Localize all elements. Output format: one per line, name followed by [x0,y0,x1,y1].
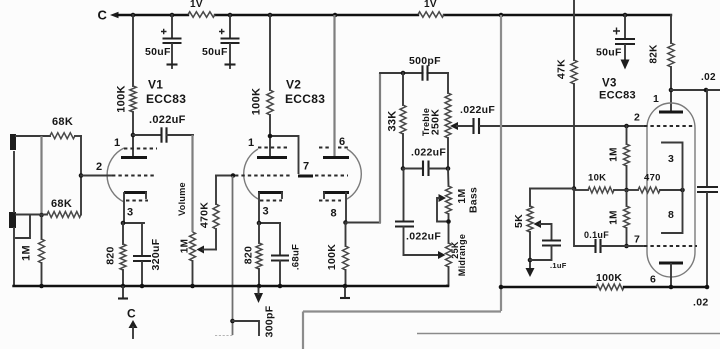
pin 8 label V2 [331,208,337,220]
resistor 100K follower label [326,244,338,270]
wire long bottom jog [303,312,501,349]
pin 1 label V1 [114,137,120,149]
capacitor .68uF label [291,244,302,270]
tube V3 plate bar top [659,111,683,114]
svg-text:5K: 5K [513,214,525,228]
resistor 470K label [199,202,211,228]
svg-text:1V: 1V [190,0,203,10]
potentiometer 1M bass label [456,188,468,203]
svg-text:.68uF: .68uF [291,244,302,270]
potentiometer 25K mid label [450,241,460,259]
svg-text:3: 3 [668,153,674,165]
capacitor .1uF presence label [550,261,567,270]
pin 2 label V3 [634,112,640,124]
capacitor 50uF #3 label [596,47,622,59]
wire ground bus right b [624,286,707,288]
svg-text:.022uF: .022uF [411,147,446,159]
resistor 1V dropper 1 [188,12,215,18]
junction mid row/33K [401,166,406,171]
capacitor .022uF mid [403,161,448,177]
resistor 68K input low [47,212,81,218]
svg-text:C: C [127,307,136,321]
wire supply rail with left arrow [110,12,188,19]
wire to mid wiper [404,254,439,256]
wire to volume pot [191,135,193,232]
svg-text:50uF: 50uF [596,47,622,59]
junction bright corner [230,319,235,324]
svg-text:470K: 470K [199,202,211,228]
junction 320uF/bus [140,284,145,289]
pin 6 label V3 [650,274,656,286]
wire bright drop [232,176,234,335]
pin 1 label V2 [248,137,254,149]
junction 820 V2/bus [257,284,262,289]
capacitor 50uF #1 [161,15,182,68]
resistor 100K V2 plate label [251,88,263,116]
resistor 1M input [39,215,45,286]
potentiometer 250K label [430,109,442,135]
tube V1 designator [148,78,163,92]
wire V2 cathode8 lead [345,193,347,223]
svg-text:50uF: 50uF [145,46,171,58]
svg-text:8: 8 [668,209,674,221]
junction rail/V2 100K [268,13,273,18]
pin 3 label V3 [668,153,674,165]
capacitor .02 top label [701,72,716,83]
junction grid1/1M [624,124,629,129]
junction NFB/10K [572,186,577,191]
node C bottom label [127,307,136,321]
wire V3 plate out [671,89,720,91]
svg-text:Bass: Bass [468,187,480,213]
tube V3 type [599,90,636,102]
tube V2 plate bar 6 [323,156,349,159]
capacitor 50uF #1 label [145,46,171,58]
svg-text:1M: 1M [180,239,191,254]
tube V2 grid7 dashes [315,175,348,177]
capacitor .02 bottom label [693,297,709,309]
tube V2 grid1 dashes [235,175,290,177]
pin 1 label V3 [653,93,659,105]
junction V2 cathode3 [257,221,262,226]
tube V3 grid1 dashes [644,125,694,127]
tube V3 grid2 dashes [644,245,697,247]
ground arrow below bus [254,287,263,303]
junction divider node [624,188,629,193]
wire 68K low to node [80,176,82,215]
svg-text:ECC83: ECC83 [146,92,186,106]
wire V2 cathode3 lead [259,193,280,223]
junction V1 cathode [121,221,126,226]
wire NFB to grid2 row [574,189,595,247]
junction plate out/cap [704,88,709,93]
ground stub T mark follower [340,287,350,298]
pin 3 label V2 [263,206,269,218]
wire tone top [380,72,448,74]
svg-text:100K: 100K [596,272,622,284]
svg-text:470: 470 [644,173,661,184]
junction grid node V1 [79,173,84,178]
resistor 68K input top label [52,116,73,128]
capacitor .68uF [271,223,289,286]
capacitor .1uF presence [530,241,561,261]
junction rail/50uF-3 [623,13,628,18]
resistor 1M V3 lower [624,190,630,246]
potentiometer Treble label [421,108,431,136]
potentiometer 1M bass [446,169,452,244]
junction V2 plate/grid7 wire [268,134,273,139]
resistor 1V dropper 1 label [190,0,203,10]
junction 1M/ground bus [39,284,44,289]
svg-text:100K: 100K [326,244,338,270]
potentiometer 5K presence [527,189,533,270]
resistor 1M V3 lower label [609,210,620,225]
svg-text:47K: 47K [556,59,568,79]
wire 68K top to node [75,136,81,176]
resistor 33K [400,73,406,169]
capacitor 50uF #2 label [202,46,228,58]
tube V2 cathode bar 3 [258,193,283,199]
resistor 100K tail label [596,272,622,284]
svg-text:C: C [98,8,108,23]
tube V1 grid dashes [112,175,155,177]
resistor 100K tail [596,284,624,290]
wire jack link vertical [40,136,42,215]
resistor 820 V1 label [105,246,117,264]
svg-text:300pF: 300pF [264,305,276,337]
svg-text:6: 6 [339,136,345,148]
junction volume/bus [190,284,195,289]
svg-text:Volume: Volume [177,182,187,216]
capacitor .02 right [697,90,718,287]
resistor 1M V3 upper [624,126,630,190]
wire V2 plate to grid7 [270,136,299,173]
input jack J1 [10,134,16,150]
capacitor .022uF V1 out [133,127,193,142]
svg-text:820: 820 [243,246,255,264]
svg-text:7: 7 [634,234,640,246]
tube V2 plate bar 1 [257,156,287,159]
svg-text:7: 7 [303,161,309,173]
svg-text:1M: 1M [456,188,468,203]
svg-text:1: 1 [248,137,254,149]
wire long vertical drop [500,15,502,311]
wire follower to tone stack [346,73,381,223]
potentiometer 1M volume label [180,239,191,254]
svg-text:1M: 1M [21,245,33,261]
junction grid2/1M [624,244,629,249]
tube V2 type [285,92,325,106]
resistor 1M V3 upper label [609,147,620,162]
svg-text:ECC83: ECC83 [285,92,325,106]
svg-text:100K: 100K [251,88,263,116]
wire V3 plate2 lead [670,264,672,287]
resistor 1M input label [21,245,33,261]
wire jack ground line [14,152,17,286]
svg-text:1V: 1V [424,0,437,10]
tube V1 envelope arc [107,148,124,202]
svg-text:250K: 250K [430,109,442,135]
potentiometer 250K treble [445,73,451,169]
tube V1 type [146,92,186,106]
junction rail/long drop [499,13,504,18]
svg-text:68K: 68K [51,198,72,210]
tube V2 envelope dashes bottom [260,200,341,202]
svg-text:82K: 82K [649,44,660,64]
ground stub T mark V1 [118,287,128,299]
svg-text:V1: V1 [148,78,163,92]
pin 3 label V1 [127,207,133,219]
volume wiper arrow [197,246,217,254]
capacitor .022uF V1 out label [149,114,186,126]
svg-text:1M: 1M [609,210,620,225]
pin 7 label V2 [303,161,309,173]
resistor 820 V2 [256,223,262,286]
svg-text:ECC83: ECC83 [599,90,636,102]
svg-text:6: 6 [650,274,656,286]
wire rail segment 3 [444,14,671,16]
resistor 470K [213,176,219,250]
resistor 470 [627,187,683,193]
tube V1 envelope dashes bottom [126,200,148,202]
junction V3 plate [669,88,674,93]
capacitor .022uF mid label [411,147,446,159]
node C bottom arrow [129,320,138,338]
svg-text:.02: .02 [701,72,716,83]
capacitor 50uF #3 [613,15,635,70]
svg-text:10K: 10K [588,173,606,184]
wire V1 cathode lead [123,193,145,223]
svg-text:.022uF: .022uF [460,104,495,116]
treble wiper arrow [450,122,473,130]
potentiometer Bass label [468,187,480,213]
potentiometer 25K mid [446,243,452,286]
border line bottom [215,334,720,336]
tube V3 designator [602,78,617,90]
svg-text:1M: 1M [609,147,620,162]
wire presence top [530,188,574,190]
capacitor 500pF label [409,55,441,67]
resistor 10K [574,187,627,193]
wire V1 grid [81,175,112,177]
resistor 100K V1 plate label [116,85,128,113]
svg-text:500pF: 500pF [409,55,441,67]
svg-text:.022uF: .022uF [149,114,186,126]
resistor 820 V2 label [243,246,255,264]
svg-text:1: 1 [114,137,120,149]
resistor 10K label [588,173,606,184]
resistor 82K [668,15,674,111]
svg-text:3: 3 [127,207,133,219]
capacitor 0.1uF label [584,230,609,240]
capacitor .022uF out label [460,104,495,116]
pin 7 label V3 [634,234,640,246]
resistor 1V dropper 2 label [424,0,437,10]
wire tone out to V3 grid [480,125,643,127]
junction V2 cathode8 [343,220,348,225]
svg-text:68K: 68K [52,116,73,128]
junction 5K bottom [528,258,533,263]
resistor 100K V2 plate [267,15,273,157]
potentiometer Midrange label [457,234,467,276]
input jack J2 [9,212,16,228]
svg-text:0.1uF: 0.1uF [584,230,609,240]
tube V2 designator [286,78,301,92]
junction jacks/1M [39,213,44,218]
junction rail/50uF-1 [170,13,175,18]
capacitor 320uF label [150,238,162,270]
bass wiper arrow [437,194,449,222]
junction V1 plate/coupling [131,133,136,138]
svg-text:33K: 33K [387,110,399,131]
junction 820/bus [121,284,126,289]
junction .68uF/bus [278,284,283,289]
wire NFB vertical [573,0,575,60]
resistor 100K follower [343,223,349,287]
junction rail/V1 100K [131,13,136,18]
tube V2 grid7 bar [298,175,313,178]
resistor 100K V1 plate [130,15,136,157]
svg-text:Midrange: Midrange [457,234,467,276]
junction plate2/bus [669,285,674,290]
wire ground bus left [14,285,449,287]
capacitor 0.1uF [596,239,644,253]
tube V2 envelope right arc [347,149,361,199]
svg-text:.02: .02 [693,297,709,309]
junction rail/V2 pin6 [333,13,338,18]
capacitor 320uF [133,223,151,286]
wire jack1 tip [16,135,50,137]
resistor 470 label [644,173,661,184]
wire 470K to V2 grid [216,175,235,177]
svg-text:320uF: 320uF [150,238,162,270]
tube V3 cathode bracket [662,143,683,234]
potentiometer 5K label [513,214,525,228]
capacitor 50uF #2 [219,15,240,68]
tube V2 envelope dashes top [258,147,348,149]
capacitor 500pF [423,65,428,80]
svg-text:2: 2 [96,161,102,173]
junction grid/bright line [231,173,236,178]
pin 2 label V1 [96,161,102,173]
svg-text:820: 820 [105,246,117,264]
presence ground arrow [526,268,535,277]
capacitor 300pF label [264,305,276,337]
presence wiper arrow [534,220,552,240]
pin 6 label V2 [339,136,345,148]
resistor 68K input top [50,133,75,139]
junction bass wiper [446,219,451,224]
junction rail/50uF-2 [228,13,233,18]
wire ground bus right a [501,286,596,288]
capacitor .022uF bass [395,169,414,256]
svg-text:2: 2 [634,112,640,124]
wire bright jog [233,321,260,335]
capacitor .022uF bass label [406,231,441,243]
svg-text:8: 8 [331,208,337,220]
node C supply label [98,8,108,23]
tube V1 plate bar [121,156,147,159]
junction 100K/bus [343,284,348,289]
pin 8 label V3 [668,209,674,221]
tube V1 envelope dashes top [124,148,157,150]
wire V2 pin6 lead [333,15,335,157]
svg-text:50uF: 50uF [202,46,228,58]
mid wiper arrow [438,251,446,259]
resistor 47K label [556,59,568,79]
svg-text:100K: 100K [116,85,128,113]
junction mid row/treble [446,166,451,171]
svg-text:.1uF: .1uF [550,261,567,270]
tube V2 envelope left arc [244,149,258,199]
resistor 33K label [387,110,399,131]
junction tone top/33K [401,71,406,76]
wire jack2 tip [16,214,47,216]
tube V2 cathode bar 8 [323,193,349,199]
svg-text:V2: V2 [286,78,301,92]
capacitor .022uF out [474,118,480,134]
resistor 47K [571,60,577,188]
resistor 1V dropper 2 [418,12,444,18]
svg-text:3: 3 [263,206,269,218]
resistor 68K input low label [51,198,72,210]
tube V3 plate bar bottom [659,262,683,265]
svg-text:V3: V3 [602,78,617,90]
potentiometer 1M volume [190,232,196,286]
junction 470/cathode rail [680,188,685,193]
resistor 820 V1 [120,223,126,286]
wire jack2 shorting loop [16,215,30,238]
junction drop/bus right [499,285,504,290]
svg-text:1: 1 [653,93,659,105]
tube V3 envelope [647,103,695,277]
resistor 82K label [649,44,660,64]
junction right cap/bus [705,285,710,290]
wire rail segment 2 [215,14,418,16]
tube V1 cathode bar [124,193,147,199]
svg-text:.022uF: .022uF [406,231,441,243]
potentiometer Volume label [177,182,187,216]
